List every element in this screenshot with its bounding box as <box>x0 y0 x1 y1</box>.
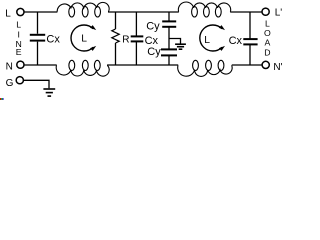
svg-text:O: O <box>264 28 271 38</box>
svg-text:L': L' <box>275 8 283 19</box>
svg-text:L: L <box>81 34 87 45</box>
svg-text:G: G <box>6 78 14 89</box>
svg-text:N: N <box>6 62 13 73</box>
svg-text:R: R <box>122 34 129 45</box>
svg-text:Cy: Cy <box>146 21 160 33</box>
svg-text:D: D <box>264 47 270 57</box>
svg-text:L: L <box>265 19 270 29</box>
svg-text:Cx: Cx <box>46 34 60 46</box>
svg-text:L: L <box>204 35 210 46</box>
svg-text:E: E <box>16 47 22 57</box>
svg-text:L: L <box>16 20 21 30</box>
svg-text:Cx: Cx <box>145 35 159 47</box>
svg-text:I: I <box>17 29 19 39</box>
svg-text:A: A <box>265 38 271 48</box>
svg-text:Cy: Cy <box>147 46 161 58</box>
svg-text:N': N' <box>273 62 282 73</box>
svg-text:Cx: Cx <box>229 35 243 47</box>
svg-text:L: L <box>5 8 11 19</box>
